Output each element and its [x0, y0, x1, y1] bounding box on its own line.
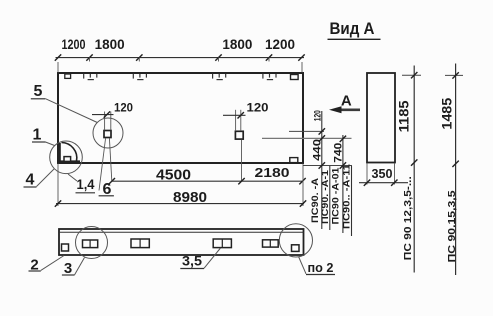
svg-text:120: 120: [312, 110, 322, 121]
svg-text:3: 3: [64, 260, 72, 277]
svg-text:А: А: [341, 92, 352, 109]
svg-text:1200: 1200: [265, 36, 295, 52]
svg-text:Вид А: Вид А: [330, 19, 375, 38]
svg-text:ПС90 -А-01: ПС90 -А-01: [330, 167, 341, 225]
svg-text:ПС 90.15,3,5: ПС 90.15,3,5: [446, 190, 458, 262]
svg-text:3,5: 3,5: [182, 253, 202, 269]
svg-text:1200: 1200: [62, 36, 86, 52]
svg-text:8980: 8980: [173, 189, 207, 206]
svg-text:4: 4: [26, 172, 35, 189]
svg-text:ПС 90 12,3,5-...: ПС 90 12,3,5-...: [402, 176, 414, 260]
svg-text:1800: 1800: [222, 36, 252, 52]
svg-text:1185: 1185: [396, 100, 411, 133]
svg-text:1: 1: [33, 126, 42, 143]
svg-text:5: 5: [34, 83, 43, 100]
svg-text:350: 350: [372, 166, 393, 181]
svg-text:440: 440: [311, 139, 323, 161]
svg-text:2180: 2180: [255, 166, 290, 180]
svg-text:4500: 4500: [156, 166, 191, 183]
svg-text:740: 740: [332, 143, 344, 163]
svg-text:1485: 1485: [439, 97, 454, 130]
svg-text:1800: 1800: [95, 36, 125, 52]
svg-text:ПС90.. -А-11: ПС90.. -А-11: [342, 163, 353, 229]
svg-text:1,4: 1,4: [77, 176, 95, 192]
svg-text:120: 120: [247, 103, 269, 115]
svg-text:120: 120: [114, 103, 133, 115]
svg-text:по 2: по 2: [308, 261, 334, 275]
